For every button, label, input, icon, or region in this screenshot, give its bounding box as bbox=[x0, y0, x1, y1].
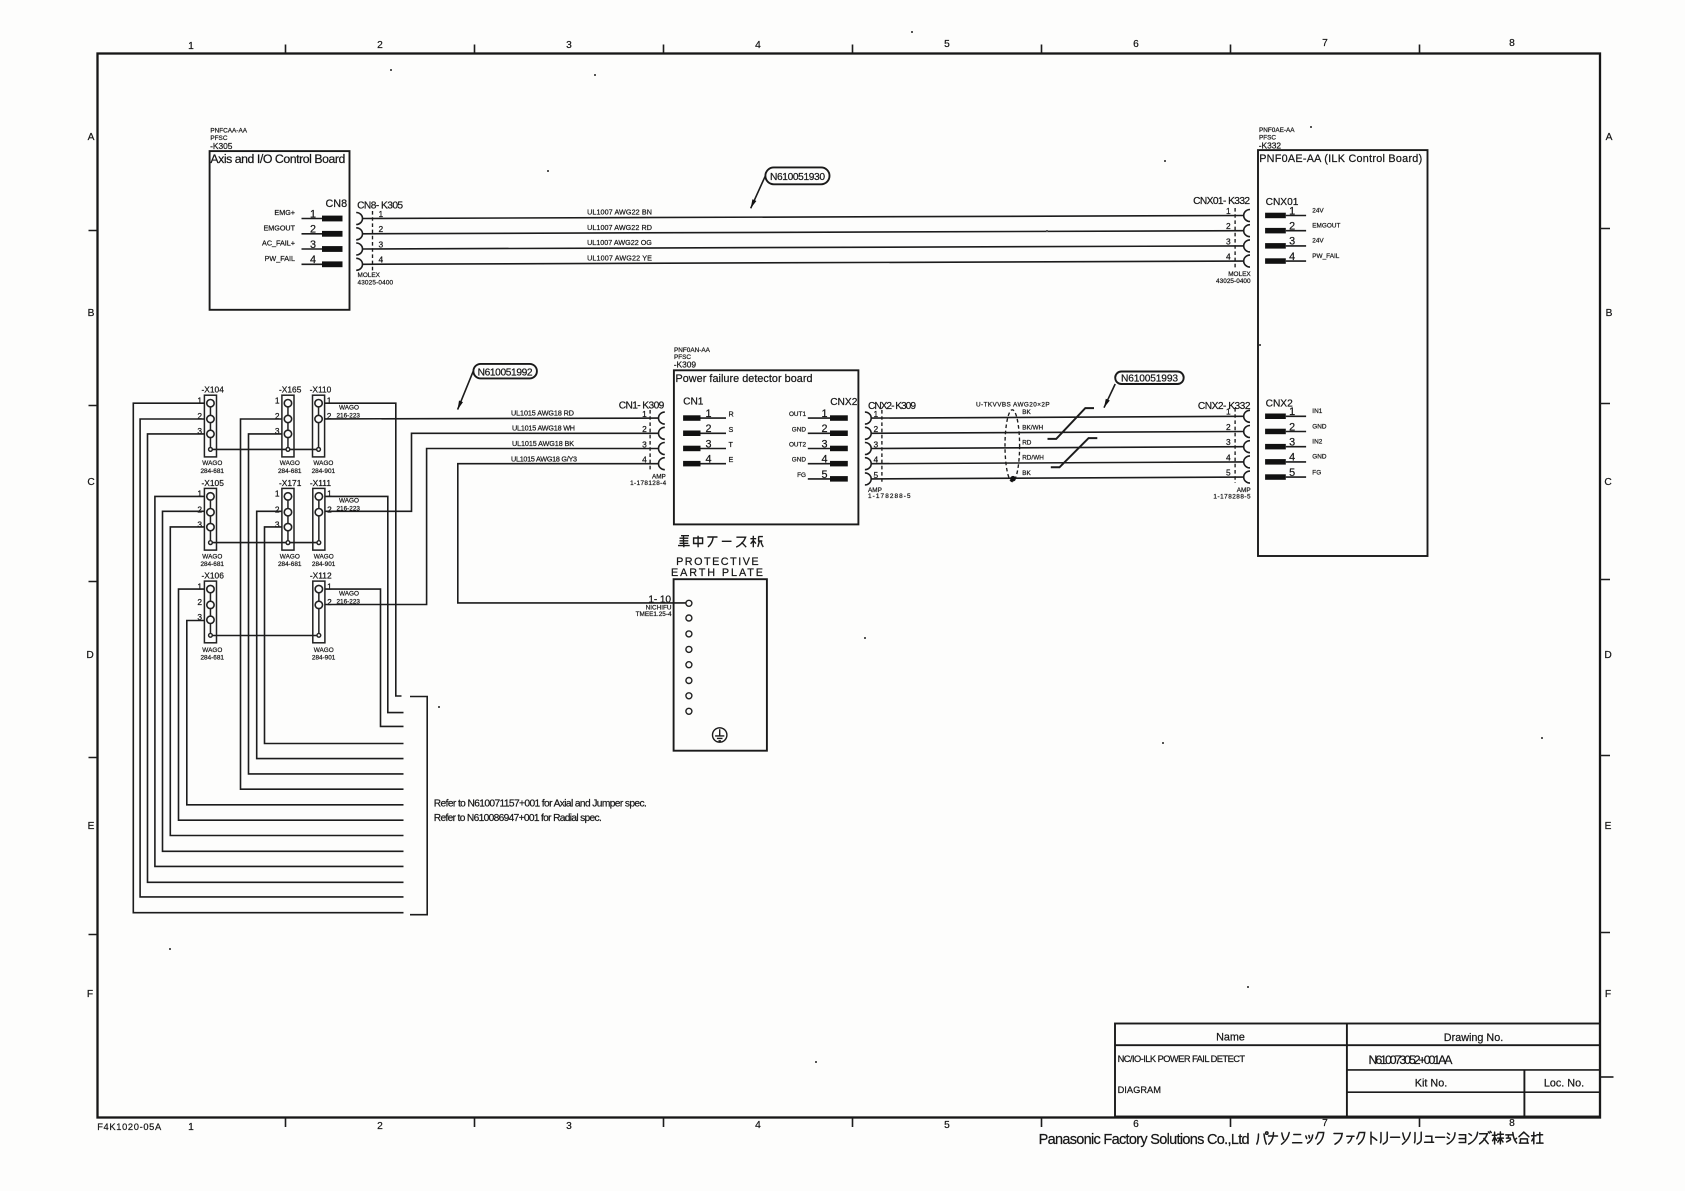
svg-text:D: D bbox=[1604, 650, 1611, 661]
svg-text:6: 6 bbox=[1133, 39, 1139, 50]
svg-text:2: 2 bbox=[1289, 421, 1295, 433]
board K332 ILK Control Board bbox=[1258, 150, 1428, 556]
wire CNX2-K309.1 to CNX2-K332.1 BK bbox=[871, 416, 1243, 418]
wire X104.2 loop bbox=[140, 419, 403, 897]
svg-text:CNX2: CNX2 bbox=[830, 397, 858, 408]
svg-text:1: 1 bbox=[821, 408, 827, 420]
svg-text:1: 1 bbox=[188, 41, 194, 52]
company name japanese bbox=[1257, 1131, 1543, 1144]
svg-text:BK: BK bbox=[1022, 470, 1031, 477]
svg-text:1: 1 bbox=[275, 395, 280, 405]
svg-text:FG: FG bbox=[797, 472, 806, 479]
cable sheath dashed oval bbox=[1005, 410, 1020, 482]
svg-text:C: C bbox=[1604, 477, 1611, 488]
board K309 Power failure detector board bbox=[674, 370, 859, 524]
svg-text:1: 1 bbox=[706, 408, 712, 420]
terminal X171 bbox=[282, 488, 294, 550]
svg-text:B: B bbox=[88, 308, 95, 319]
svg-text:284-681: 284-681 bbox=[278, 468, 302, 475]
CNX2-K332 socket arcs bbox=[1244, 410, 1250, 483]
wire CN8.4 to CNX01.4 UL1007 AWG22 YE bbox=[363, 261, 1244, 264]
svg-text:WAGO: WAGO bbox=[280, 553, 300, 560]
earth plate screw holes bbox=[686, 600, 692, 714]
wire X110.1 via 216-223 down bbox=[325, 403, 402, 696]
svg-text:-X110: -X110 bbox=[310, 385, 332, 395]
svg-text:WAGO: WAGO bbox=[313, 460, 333, 467]
jumper X104-X165-X110 commons bbox=[211, 448, 319, 450]
svg-text:TMEE1.25-4: TMEE1.25-4 bbox=[636, 611, 672, 618]
wire X105.1 loop bbox=[155, 496, 404, 866]
wire CN8.2 to CNX01.2 UL1007 AWG22 RD bbox=[363, 231, 1244, 234]
svg-text:2: 2 bbox=[821, 423, 827, 435]
svg-text:MOLEX: MOLEX bbox=[358, 272, 381, 279]
svg-text:5: 5 bbox=[821, 469, 827, 481]
svg-text:OUT1: OUT1 bbox=[789, 411, 806, 418]
svg-text:E: E bbox=[729, 455, 734, 464]
katakana dash bbox=[722, 540, 732, 542]
wire CNX2-K309.5 to CNX2-K332.5 BK bbox=[871, 477, 1243, 479]
CNX2-K332 pin 2 GND bbox=[1265, 429, 1286, 435]
CNX2-K332 mating dashed line bbox=[1234, 408, 1236, 483]
svg-text:3: 3 bbox=[1289, 236, 1295, 248]
svg-text:N610073052+001AA: N610073052+001AA bbox=[1369, 1053, 1454, 1067]
svg-text:7: 7 bbox=[1322, 38, 1328, 49]
svg-text:1: 1 bbox=[1289, 406, 1295, 418]
wire X112.1 via 216-223 down bbox=[325, 589, 404, 726]
CNX2-K309 wire numbers bbox=[874, 409, 879, 480]
svg-text:PNF0AE-AA (ILK Control Board): PNF0AE-AA (ILK Control Board) bbox=[1259, 153, 1422, 165]
svg-text:WAGO: WAGO bbox=[339, 498, 359, 505]
svg-text:2: 2 bbox=[197, 504, 202, 514]
wire CNX2-K309.3 to CNX2-K332.3 RD bbox=[871, 447, 1243, 449]
svg-text:-X112: -X112 bbox=[310, 571, 332, 581]
wire X106.3 loop bbox=[187, 621, 404, 805]
svg-text:WAGO: WAGO bbox=[280, 460, 300, 467]
svg-text:C: C bbox=[87, 477, 94, 488]
svg-text:S: S bbox=[729, 425, 734, 434]
svg-text:3: 3 bbox=[379, 239, 384, 249]
protective earth symbol bbox=[713, 728, 727, 742]
svg-text:284-681: 284-681 bbox=[201, 654, 225, 661]
wire X165.3 loop bbox=[249, 434, 404, 774]
wire CN8.1 to CNX01.1 UL1007 AWG22 BN bbox=[363, 216, 1244, 219]
katakana ア bbox=[707, 537, 717, 547]
svg-text:2: 2 bbox=[275, 504, 280, 514]
svg-text:PNF0AE-AA: PNF0AE-AA bbox=[1259, 127, 1295, 134]
svg-text:6: 6 bbox=[1133, 1119, 1139, 1130]
svg-text:AC_FAIL+: AC_FAIL+ bbox=[262, 239, 295, 248]
wire X171.3 loop bbox=[265, 527, 404, 744]
svg-text:Drawing No.: Drawing No. bbox=[1444, 1032, 1503, 1044]
terminal X165 bbox=[282, 395, 294, 457]
svg-text:UL1015 AWG18 WH: UL1015 AWG18 WH bbox=[512, 424, 575, 433]
svg-text:2: 2 bbox=[706, 423, 712, 435]
wire X104.1 loop bbox=[133, 403, 403, 913]
svg-text:WAGO: WAGO bbox=[314, 553, 334, 560]
svg-text:RD/WH: RD/WH bbox=[1022, 455, 1044, 462]
column labels bottom bbox=[188, 1118, 1515, 1133]
svg-text:GND: GND bbox=[792, 457, 807, 464]
wire X171.2 loop bbox=[257, 511, 404, 758]
svg-text:7: 7 bbox=[1322, 1118, 1328, 1129]
svg-text:MOLEX: MOLEX bbox=[1228, 271, 1251, 278]
terminal X106 bbox=[204, 581, 216, 643]
svg-text:2: 2 bbox=[1226, 221, 1231, 231]
svg-text:UL1015 AWG18 G/Y3: UL1015 AWG18 G/Y3 bbox=[511, 455, 577, 464]
svg-text:EMGOUT: EMGOUT bbox=[263, 224, 295, 233]
svg-text:Loc. No.: Loc. No. bbox=[1544, 1078, 1584, 1090]
title block rule under kit no bbox=[1347, 1091, 1600, 1093]
svg-text:-X111: -X111 bbox=[310, 478, 331, 488]
svg-text:24V: 24V bbox=[1312, 207, 1324, 214]
wire X112.2 to CN1.3 UL1015 AWG18 BK bbox=[325, 449, 659, 605]
CN1 pin 1 R bbox=[683, 415, 700, 421]
svg-text:T: T bbox=[729, 440, 734, 449]
svg-text:2: 2 bbox=[327, 504, 332, 514]
wire CN1.4 to earth plate UL1015 AWG18 G/Y3 bbox=[458, 464, 686, 603]
svg-text:3: 3 bbox=[566, 40, 572, 51]
wire X111.2 to CN1.2 UL1015 AWG18 WH bbox=[325, 433, 659, 511]
svg-text:UL1007 AWG22 YE: UL1007 AWG22 YE bbox=[587, 253, 652, 262]
svg-text:D: D bbox=[86, 650, 93, 661]
svg-text:F: F bbox=[1605, 989, 1611, 1000]
CNX01-K332 wire numbers bbox=[1226, 206, 1231, 262]
CNX01-K332 mating dashed line bbox=[1234, 208, 1236, 268]
svg-text:WAGO: WAGO bbox=[339, 405, 359, 412]
svg-text:OUT2: OUT2 bbox=[789, 442, 806, 449]
svg-text:8: 8 bbox=[1509, 38, 1515, 49]
wire X105.3 loop bbox=[170, 527, 403, 836]
svg-text:Refer to N610071157+001 for Ax: Refer to N610071157+001 for Axial and Ju… bbox=[434, 799, 647, 810]
wire X111.1 via 216-223 down bbox=[325, 496, 404, 712]
svg-text:-X106: -X106 bbox=[202, 571, 225, 581]
svg-text:WAGO: WAGO bbox=[202, 553, 222, 560]
svg-text:B: B bbox=[1606, 308, 1613, 319]
CNX2-K309 mating dashed line bbox=[881, 410, 883, 484]
wire X105.2 loop bbox=[163, 511, 404, 851]
svg-text:EMGOUT: EMGOUT bbox=[1312, 223, 1340, 230]
svg-text:WAGO: WAGO bbox=[202, 460, 222, 467]
wire CN8.3 to CNX01.3 UL1007 AWG22 OG bbox=[363, 246, 1244, 249]
svg-text:CNX2- K332: CNX2- K332 bbox=[1198, 401, 1251, 412]
svg-text:UL1015 AWG18 BK: UL1015 AWG18 BK bbox=[512, 439, 574, 448]
title block header rule bbox=[1115, 1044, 1600, 1046]
svg-text:DIAGRAM: DIAGRAM bbox=[1118, 1085, 1161, 1095]
svg-text:1-178128-4: 1-178128-4 bbox=[630, 480, 667, 487]
svg-text:284-901: 284-901 bbox=[312, 468, 336, 475]
svg-text:N610051992: N610051992 bbox=[478, 367, 533, 378]
svg-text:8: 8 bbox=[1509, 1118, 1515, 1129]
svg-text:Power failure detector board: Power failure detector board bbox=[676, 373, 813, 385]
svg-text:4: 4 bbox=[379, 255, 384, 265]
svg-text:-K305: -K305 bbox=[210, 141, 233, 151]
svg-text:Panasonic Factory Solutions Co: Panasonic Factory Solutions Co.,Ltd bbox=[1039, 1132, 1250, 1148]
svg-text:4: 4 bbox=[1289, 452, 1295, 464]
CN1 pin 4 E bbox=[683, 461, 700, 467]
svg-text:3: 3 bbox=[197, 519, 202, 529]
wire X110.2 to CN1.1 UL1015 AWG18 RD bbox=[325, 417, 659, 420]
CNX2-K332 wire numbers bbox=[1226, 407, 1231, 478]
svg-text:-X171: -X171 bbox=[279, 478, 302, 488]
title block divider name/drawing bbox=[1346, 1024, 1348, 1117]
svg-text:1: 1 bbox=[1226, 407, 1231, 417]
svg-text:-X165: -X165 bbox=[279, 385, 302, 395]
svg-text:4: 4 bbox=[1289, 251, 1295, 263]
svg-text:5: 5 bbox=[1226, 468, 1231, 478]
CN1 pin 2 S bbox=[683, 431, 700, 437]
svg-text:5: 5 bbox=[1289, 467, 1295, 479]
svg-text:E: E bbox=[1605, 821, 1612, 832]
svg-text:2: 2 bbox=[379, 224, 384, 234]
column tick marks bottom bbox=[286, 1118, 1420, 1128]
katakana ス bbox=[736, 537, 746, 547]
svg-text:CN8: CN8 bbox=[326, 198, 348, 210]
CN1-K309 wire numbers bbox=[642, 409, 647, 465]
CN1-K309 socket arcs bbox=[659, 412, 665, 470]
svg-text:2: 2 bbox=[377, 1121, 383, 1132]
svg-text:UL1007 AWG22 BN: UL1007 AWG22 BN bbox=[587, 208, 652, 217]
CN8-K305 mating dashed line bbox=[372, 211, 374, 271]
svg-text:-K309: -K309 bbox=[674, 359, 697, 369]
terminal X112 bbox=[313, 581, 325, 643]
svg-text:4: 4 bbox=[1226, 452, 1231, 462]
svg-text:N610051993: N610051993 bbox=[1121, 374, 1178, 385]
CNX2-K332 pin 4 GND bbox=[1265, 459, 1286, 465]
svg-text:Name: Name bbox=[1216, 1032, 1245, 1044]
svg-text:GND: GND bbox=[1312, 423, 1327, 430]
svg-text:WAGO: WAGO bbox=[314, 647, 334, 654]
svg-text:3: 3 bbox=[1226, 236, 1231, 246]
svg-text:-K332: -K332 bbox=[1259, 140, 1282, 150]
CNX01 pin 2 EMGOUT bbox=[1265, 228, 1286, 234]
column tick marks top bbox=[286, 45, 1420, 54]
wire X104.3 loop bbox=[148, 434, 404, 882]
svg-text:EMG+: EMG+ bbox=[274, 208, 295, 217]
kanji 中 bbox=[694, 536, 703, 548]
svg-text:UL1007 AWG22 OG: UL1007 AWG22 OG bbox=[587, 238, 652, 247]
svg-text:PNFCAA-AA: PNFCAA-AA bbox=[210, 127, 247, 134]
svg-text:3: 3 bbox=[706, 438, 712, 450]
title block outline bbox=[1115, 1024, 1600, 1117]
wire return bracket bbox=[410, 697, 427, 915]
svg-text:3: 3 bbox=[821, 438, 827, 450]
svg-text:43025-0400: 43025-0400 bbox=[358, 280, 394, 287]
svg-text:2: 2 bbox=[327, 597, 332, 607]
row tick marks right bbox=[1600, 229, 1610, 933]
svg-text:Kit No.: Kit No. bbox=[1415, 1078, 1447, 1090]
fold tick right bbox=[1600, 1076, 1614, 1078]
jumper X105-X171-X111 commons bbox=[211, 542, 319, 544]
callout N610051993 bbox=[1115, 372, 1184, 385]
svg-text:5: 5 bbox=[944, 1120, 950, 1131]
CN1-K309 mating dashed line bbox=[649, 410, 651, 470]
svg-text:2: 2 bbox=[1289, 221, 1295, 233]
svg-text:1: 1 bbox=[379, 209, 384, 219]
svg-text:R: R bbox=[729, 410, 734, 419]
svg-text:284-681: 284-681 bbox=[201, 561, 225, 568]
wire X106.1 loop bbox=[179, 589, 404, 820]
svg-text:4: 4 bbox=[706, 454, 712, 466]
terminal X104 bbox=[204, 395, 216, 457]
svg-text:F4K1020-05A: F4K1020-05A bbox=[97, 1122, 162, 1132]
column labels top bbox=[188, 38, 1515, 52]
svg-text:FG: FG bbox=[1312, 470, 1321, 477]
svg-text:CN1: CN1 bbox=[683, 397, 704, 408]
CNX01-K332 socket arcs bbox=[1244, 210, 1250, 268]
terminal X111 bbox=[313, 488, 325, 550]
svg-text:WAGO: WAGO bbox=[339, 590, 359, 597]
svg-text:5: 5 bbox=[944, 39, 950, 50]
svg-text:BK: BK bbox=[1022, 409, 1031, 416]
svg-text:1-178288-5: 1-178288-5 bbox=[868, 493, 911, 500]
earth plate box bbox=[674, 579, 767, 751]
svg-text:IN2: IN2 bbox=[1312, 439, 1322, 446]
twisted pair slash mark 2 bbox=[1051, 438, 1098, 467]
svg-text:1: 1 bbox=[275, 489, 280, 499]
svg-text:WAGO: WAGO bbox=[202, 647, 222, 654]
callout N610051930 bbox=[765, 167, 829, 184]
svg-text:-X105: -X105 bbox=[202, 478, 225, 488]
wire CNX2-K309.2 to CNX2-K332.2 BK/WH bbox=[871, 432, 1243, 434]
twisted pair slash mark 1 bbox=[1048, 408, 1095, 439]
CNX2-K332 pin 5 FG bbox=[1265, 474, 1286, 480]
terminal X105 bbox=[204, 488, 216, 550]
svg-text:N610051930: N610051930 bbox=[770, 172, 825, 183]
svg-text:A: A bbox=[1606, 132, 1613, 143]
svg-text:3: 3 bbox=[1289, 437, 1295, 449]
row labels right bbox=[1604, 132, 1612, 1000]
svg-text:284-901: 284-901 bbox=[312, 561, 336, 568]
svg-text:CNX01- K332: CNX01- K332 bbox=[1193, 196, 1250, 207]
svg-text:284-681: 284-681 bbox=[278, 561, 302, 568]
CNX01 pin 1 24V bbox=[1265, 213, 1286, 219]
kanji 板 bbox=[750, 536, 763, 548]
svg-text:2: 2 bbox=[327, 411, 332, 421]
svg-text:284-681: 284-681 bbox=[201, 468, 225, 475]
svg-text:2: 2 bbox=[197, 597, 202, 607]
callout N610051992 bbox=[473, 364, 537, 379]
svg-text:A: A bbox=[88, 132, 95, 143]
svg-text:3: 3 bbox=[1226, 437, 1231, 447]
CNX2-K332 pin 3 IN2 bbox=[1265, 444, 1286, 450]
svg-text:4: 4 bbox=[755, 40, 761, 51]
svg-text:284-901: 284-901 bbox=[312, 654, 336, 661]
svg-text:2: 2 bbox=[1226, 422, 1231, 432]
wire X165.2 loop bbox=[241, 419, 404, 789]
svg-text:IN1: IN1 bbox=[1312, 408, 1322, 415]
title block divider kit/loc bbox=[1523, 1070, 1525, 1117]
svg-text:PW_FAIL: PW_FAIL bbox=[1312, 253, 1339, 260]
svg-text:3: 3 bbox=[275, 519, 280, 529]
svg-text:3: 3 bbox=[566, 1121, 572, 1132]
svg-text:E: E bbox=[88, 821, 95, 832]
svg-text:1: 1 bbox=[1226, 206, 1231, 216]
svg-text:Refer to N610086947+001 for Ra: Refer to N610086947+001 for Radial spec. bbox=[434, 813, 602, 824]
CN8-K305 wire numbers bbox=[379, 209, 384, 265]
svg-text:GND: GND bbox=[792, 426, 807, 433]
svg-text:NC/IO-ILK POWER FAIL DETECT: NC/IO-ILK POWER FAIL DETECT bbox=[1118, 1054, 1246, 1064]
row labels left bbox=[86, 132, 94, 1000]
svg-text:EARTH PLATE: EARTH PLATE bbox=[671, 567, 764, 579]
svg-text:1-178288-5: 1-178288-5 bbox=[1213, 494, 1251, 501]
svg-text:4: 4 bbox=[755, 1120, 761, 1131]
svg-text:2: 2 bbox=[377, 40, 383, 51]
svg-text:U-TKVVBS AWG20×2P: U-TKVVBS AWG20×2P bbox=[976, 402, 1050, 409]
svg-text:1: 1 bbox=[1289, 205, 1295, 217]
svg-text:Axis and I/O Control Board: Axis and I/O Control Board bbox=[210, 152, 345, 166]
svg-text:43025-0400: 43025-0400 bbox=[1216, 278, 1251, 285]
svg-text:1: 1 bbox=[188, 1122, 194, 1133]
border frame bbox=[98, 54, 1601, 1118]
svg-text:-X104: -X104 bbox=[202, 385, 225, 395]
svg-text:PW_FAIL: PW_FAIL bbox=[265, 254, 295, 263]
svg-text:F: F bbox=[87, 989, 93, 1000]
CNX2-K332 pin 1 IN1 bbox=[1265, 414, 1286, 420]
wire CNX2-K309.4 to CNX2-K332.4 RD/WH bbox=[871, 462, 1243, 464]
terminal X110 bbox=[313, 395, 325, 457]
CNX2-K309 plug arcs bbox=[865, 412, 871, 485]
CN1 pin 3 T bbox=[683, 446, 700, 452]
CN8-K305 socket arcs bbox=[356, 213, 362, 271]
protective earth plate JP title bbox=[678, 536, 763, 548]
title block rule under drawing no bbox=[1347, 1069, 1600, 1071]
CNX01 pin 4 PW_FAIL bbox=[1265, 258, 1286, 264]
CNX01 pin 3 24V bbox=[1265, 243, 1286, 249]
svg-text:4: 4 bbox=[1226, 252, 1231, 262]
jumper X106-X112 commons bbox=[211, 635, 319, 637]
row tick marks left bbox=[89, 231, 98, 935]
svg-text:RD: RD bbox=[1022, 440, 1032, 447]
kanji 集 bbox=[678, 536, 690, 548]
svg-text:UL1015 AWG18 RD: UL1015 AWG18 RD bbox=[511, 408, 574, 417]
svg-text:BK/WH: BK/WH bbox=[1022, 424, 1043, 431]
svg-text:GND: GND bbox=[1312, 454, 1327, 461]
svg-text:24V: 24V bbox=[1312, 238, 1324, 245]
svg-text:4: 4 bbox=[821, 454, 827, 466]
shield junction dot bbox=[1010, 476, 1016, 482]
svg-text:UL1007 AWG22 RD: UL1007 AWG22 RD bbox=[587, 223, 652, 232]
board K305 Axis and I/O Control Board bbox=[210, 151, 350, 310]
svg-text:PNF0AN-AA: PNF0AN-AA bbox=[674, 347, 711, 354]
